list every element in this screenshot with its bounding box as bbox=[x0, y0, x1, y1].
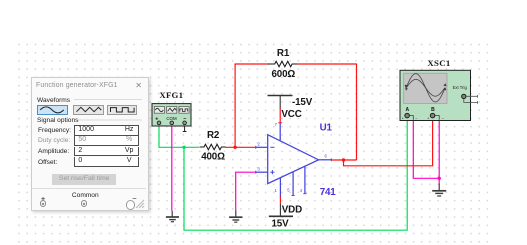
svg-text:VCC: VCC bbox=[281, 109, 301, 120]
svg-text:5: 5 bbox=[287, 188, 290, 193]
svg-text:7: 7 bbox=[275, 122, 278, 127]
svg-text:XFG1: XFG1 bbox=[159, 90, 183, 100]
svg-text:2: 2 bbox=[258, 142, 261, 147]
svg-text:COM: COM bbox=[166, 116, 177, 121]
svg-text:4: 4 bbox=[300, 188, 303, 193]
svg-text:A: A bbox=[405, 107, 409, 113]
svg-text:3: 3 bbox=[258, 167, 261, 172]
svg-text:1: 1 bbox=[275, 188, 278, 193]
svg-text:15V: 15V bbox=[272, 218, 290, 229]
svg-text:R2: R2 bbox=[207, 130, 220, 141]
svg-text:6: 6 bbox=[325, 154, 328, 159]
svg-text:R1: R1 bbox=[277, 48, 290, 59]
svg-text:Ext Trig: Ext Trig bbox=[453, 85, 468, 90]
svg-text:XSC1: XSC1 bbox=[427, 58, 450, 68]
svg-text:-15V: -15V bbox=[292, 97, 313, 108]
svg-text:741: 741 bbox=[320, 187, 337, 198]
svg-text:VDD: VDD bbox=[282, 204, 302, 215]
svg-text:U1: U1 bbox=[320, 123, 333, 134]
svg-text:B: B bbox=[431, 107, 435, 113]
svg-text:400Ω: 400Ω bbox=[201, 152, 225, 163]
svg-text:600Ω: 600Ω bbox=[272, 69, 296, 80]
